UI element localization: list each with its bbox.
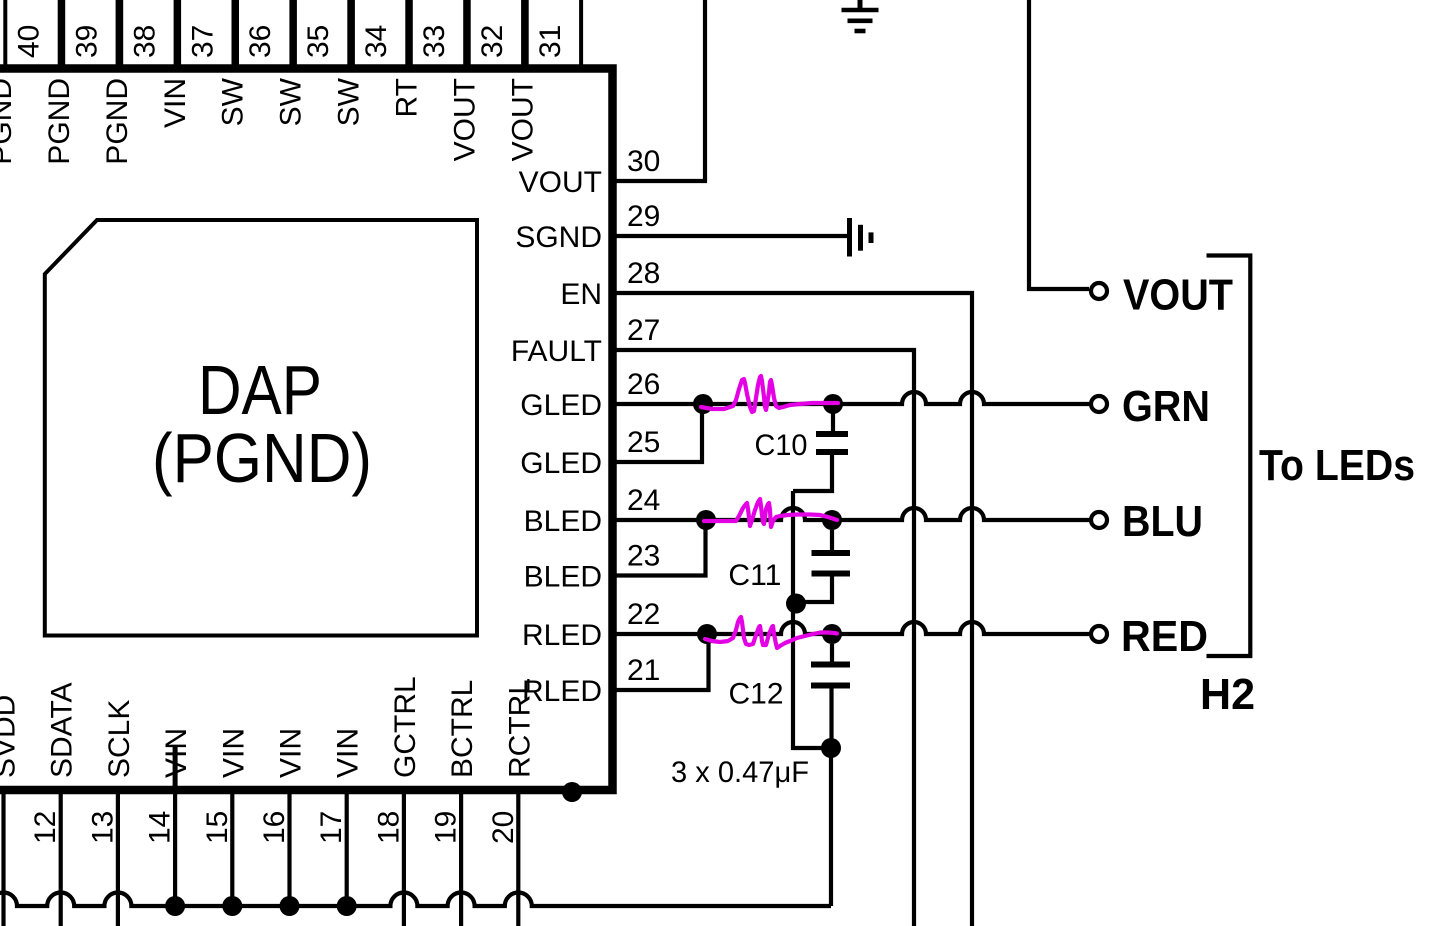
wire pin 21 RLED joining pin 22 (616, 640, 709, 690)
pin number 40 (13, 25, 46, 58)
ferrite bead squiggle on GLED line (701, 376, 838, 412)
wire pin 23 BLED joining pin 24 (616, 526, 706, 576)
svg-text:RT: RT (391, 78, 424, 117)
pin number 13 (86, 811, 119, 844)
svg-text:(PGND): (PGND) (152, 419, 372, 497)
bracket for To LEDs group (1207, 256, 1251, 657)
pin wire, pin 17 (VIN) bottom side (345, 790, 349, 906)
pin label BLED (pin 24) (524, 505, 602, 538)
svg-text:SW: SW (217, 77, 250, 126)
capacitor C10 bottom lead to return line (793, 455, 832, 491)
pin number 33 (418, 25, 451, 58)
net label BLU (1122, 497, 1203, 546)
svg-text:14: 14 (144, 811, 177, 844)
svg-text:H2: H2 (1200, 670, 1255, 719)
terminal RED (header H2 pin) (1091, 626, 1107, 642)
svg-text:SCLK: SCLK (103, 700, 136, 778)
designator H2 (1200, 670, 1255, 719)
svg-text:31: 31 (534, 25, 567, 58)
svg-text:37: 37 (186, 25, 219, 58)
pin label RLED (pin 22) (522, 619, 602, 652)
svg-text:33: 33 (418, 25, 451, 58)
ground symbol (top, earth ground) (842, 0, 879, 31)
svg-text:12: 12 (29, 811, 62, 844)
svg-text:VOUT: VOUT (519, 166, 602, 199)
junction BLED left (696, 510, 716, 530)
capacitor C11 bottom lead to return line (796, 577, 832, 603)
pin number 21 (627, 654, 660, 687)
value label 3 x 0.47uF (671, 756, 809, 789)
pin label BLED (pin 23) (524, 561, 602, 594)
ferrite bead squiggle on RLED line (705, 617, 837, 648)
svg-text:34: 34 (360, 25, 393, 58)
pin label VOUT (pin 31) (506, 78, 539, 161)
junction BLED/C11 (822, 510, 842, 530)
junction VIN pin 17 to bus (337, 896, 357, 916)
junction GLED left (693, 394, 713, 414)
VIN pin 14 stub extending inside IC (173, 747, 178, 790)
net label RED (1121, 612, 1208, 661)
svg-text:VIN: VIN (275, 728, 308, 778)
svg-text:RLED: RLED (522, 675, 602, 708)
junction C12/common node (821, 738, 841, 758)
svg-text:SDATA: SDATA (46, 682, 79, 778)
capacitor C10 plates (816, 434, 848, 452)
svg-text:35: 35 (302, 25, 335, 58)
pin label GLED (pin 25) (520, 447, 602, 480)
pin number 32 (476, 25, 509, 58)
pin label VIN (pin 37) (159, 78, 192, 128)
pin wire, pin 12 (SDATA) bottom side (59, 790, 63, 926)
wire common node down to bottom bus (829, 748, 833, 906)
svg-text:BLED: BLED (524, 561, 602, 594)
value label C11 (728, 559, 781, 592)
pin label PGND (pin 38) (101, 78, 134, 165)
pin number 38 (128, 25, 161, 58)
pin label SCLK (pin 13) (103, 700, 136, 778)
svg-text:22: 22 (627, 598, 660, 631)
svg-text:40: 40 (13, 25, 46, 58)
pin number 24 (627, 484, 660, 517)
pin label VIN (pin 14) (160, 728, 193, 778)
svg-text:C11: C11 (728, 559, 781, 592)
pin label BCTRL (pin 19) (446, 680, 479, 778)
pin number 19 (430, 811, 463, 844)
pin number 28 (627, 257, 660, 290)
svg-text:C10: C10 (755, 429, 808, 462)
pin label SW (pin 35) (275, 77, 308, 126)
svg-text:39: 39 (70, 25, 103, 58)
junction C11 return (786, 594, 806, 614)
svg-text:SW: SW (275, 77, 308, 126)
pin wire, pin 18 (GCTRL) bottom side (402, 790, 406, 926)
pin label RCTRL (pin 20) (503, 678, 536, 778)
pin number 23 (627, 540, 660, 573)
pin box, pin 31 (VOUT) top side (527, 0, 581, 68)
pin number 39 (70, 25, 103, 58)
wire RLED net (pin 22) to RED terminal, hops over capacitor return, FAULT and EN wires (616, 622, 1089, 634)
DAP (PGND) exposed pad box (45, 220, 477, 636)
svg-text:SVDD: SVDD (0, 695, 22, 778)
pin label PGND (pin 40) (0, 78, 18, 165)
pin number 36 (244, 25, 277, 58)
pin number 22 (627, 598, 660, 631)
pin box, pin 40 (PGND) top side (5, 0, 59, 68)
svg-text:VOUT: VOUT (1123, 271, 1233, 320)
net label GRN (1122, 382, 1210, 431)
pin box, pin 33 (RT) top side (411, 0, 465, 68)
junction GLED/C10 (823, 394, 843, 414)
svg-text:PGND: PGND (43, 78, 76, 165)
svg-text:17: 17 (315, 811, 348, 844)
wire pin 28 EN down off-image (616, 293, 972, 926)
pin wire, pin 14 (VIN) bottom side (173, 790, 177, 906)
capacitor C11 top stub (830, 530, 834, 550)
pin number 29 (627, 200, 660, 233)
pin number 34 (360, 25, 393, 58)
svg-text:RLED: RLED (522, 619, 602, 652)
wire pin 25 GLED joining pin 26 (616, 410, 702, 462)
pin label GLED (pin 26) (520, 389, 602, 422)
IC U1 body outline (top edge, right edge, bottom edge) (0, 69, 613, 791)
pin wire, pin 13 (SCLK) bottom side (116, 790, 120, 926)
pin label VIN (pin 16) (275, 728, 308, 778)
svg-text:13: 13 (86, 811, 119, 844)
wire pin 30 VOUT stub going up off-image (616, 0, 705, 181)
svg-text:36: 36 (244, 25, 277, 58)
svg-text:VIN: VIN (159, 78, 192, 128)
junction VIN pin 15 to bus (222, 896, 242, 916)
svg-text:PGND: PGND (101, 78, 134, 165)
pin number 16 (258, 811, 291, 844)
terminal GRN (header H2 pin) (1091, 396, 1107, 412)
pin number 25 (627, 426, 660, 459)
junction VIN pin 16 to bus (280, 896, 300, 916)
svg-text:FAULT: FAULT (511, 335, 602, 368)
svg-text:27: 27 (627, 314, 660, 347)
pin number 27 (627, 314, 660, 347)
pin number 15 (201, 811, 234, 844)
svg-text:18: 18 (372, 811, 405, 844)
svg-text:GRN: GRN (1122, 382, 1210, 431)
pin number 17 (315, 811, 348, 844)
svg-text:29: 29 (627, 200, 660, 233)
pin label EN (pin 28) (560, 278, 602, 311)
value label C10 (755, 429, 808, 462)
pin number 20 (487, 811, 520, 844)
pin label SGND (pin 29) (515, 221, 602, 254)
svg-text:VIN: VIN (332, 728, 365, 778)
pin label VIN (pin 17) (332, 728, 365, 778)
junction RLED/C12 (822, 624, 842, 644)
svg-text:C12: C12 (729, 678, 784, 711)
pin box, pin 37 (VIN) top side (179, 0, 233, 68)
svg-text:To LEDs: To LEDs (1259, 441, 1415, 490)
svg-text:25: 25 (627, 426, 660, 459)
svg-text:EN: EN (560, 278, 602, 311)
svg-text:VIN: VIN (160, 728, 193, 778)
pin wire, pin 16 (VIN) bottom side (287, 790, 291, 906)
svg-text:21: 21 (627, 654, 660, 687)
wire BLED net (pin 24) to BLU terminal, hops over C10 return, FAULT and EN wires (616, 508, 1089, 520)
ground symbol (SGND, rotated right) (850, 218, 872, 257)
pin label FAULT (pin 27) (511, 335, 602, 368)
svg-text:DAP: DAP (198, 351, 322, 429)
svg-text:15: 15 (201, 811, 234, 844)
svg-text:20: 20 (487, 811, 520, 844)
junction on IC bottom edge (562, 782, 582, 802)
pin box, pin 32 (VOUT) top side (469, 0, 523, 68)
pin label VOUT (pin 32) (448, 78, 481, 161)
svg-text:32: 32 (476, 25, 509, 58)
svg-text:24: 24 (627, 484, 660, 517)
capacitor C12 plates (811, 665, 850, 686)
wire pin 27 FAULT down off-image (616, 350, 914, 926)
pin label SW (pin 34) (333, 77, 366, 126)
junction RLED left (697, 624, 717, 644)
svg-text:28: 28 (627, 257, 660, 290)
svg-text:PGND: PGND (0, 78, 18, 165)
pin number 30 (627, 145, 660, 178)
pin label SW (pin 36) (217, 77, 250, 126)
svg-text:SW: SW (333, 77, 366, 126)
terminal BLU (header H2 pin) (1091, 512, 1107, 528)
pin label VIN (pin 15) (217, 728, 250, 778)
svg-text:BCTRL: BCTRL (446, 680, 479, 778)
svg-text:BLED: BLED (524, 505, 602, 538)
wire pin 29 SGND to ground (616, 234, 847, 238)
svg-text:VIN: VIN (217, 728, 250, 778)
svg-text:GLED: GLED (520, 447, 602, 480)
svg-text:16: 16 (258, 811, 291, 844)
pin wire, pin 15 (VIN) bottom side (230, 790, 234, 906)
pin box, pin 38 (PGND) top side (121, 0, 175, 68)
svg-text:38: 38 (128, 25, 161, 58)
svg-text:GCTRL: GCTRL (389, 676, 422, 778)
capacitor C11 plates (812, 553, 851, 574)
pin box, pin 39 (PGND) top side (63, 0, 117, 68)
label DAP (198, 351, 322, 429)
svg-text:30: 30 (627, 145, 660, 178)
pin wire, pin 11 (SVDD) bottom side (1, 790, 5, 926)
svg-text:26: 26 (627, 368, 660, 401)
net label VOUT (1123, 271, 1233, 320)
pin number 31 (534, 25, 567, 58)
pin wire, pin 20 (RCTRL) bottom side (516, 790, 520, 926)
wire capacitor common return (vertical) (793, 491, 831, 748)
junction VIN pin 14 to bus (165, 896, 185, 916)
pin label PGND (pin 39) (43, 78, 76, 165)
svg-text:SGND: SGND (515, 221, 602, 254)
pin box, pin 36 (SW) top side (237, 0, 291, 68)
svg-text:GLED: GLED (520, 389, 602, 422)
capacitor C10 top stub (831, 404, 835, 431)
pin number 26 (627, 368, 660, 401)
capacitor C12 top stub (830, 644, 834, 662)
pin number 37 (186, 25, 219, 58)
ferrite bead squiggle on BLED line (704, 499, 837, 527)
terminal VOUT (header H2 pin) (1091, 283, 1107, 299)
svg-text:BLU: BLU (1122, 497, 1203, 546)
svg-text:RED: RED (1121, 612, 1208, 661)
label To LEDs (1259, 441, 1415, 490)
pin number 14 (144, 811, 177, 844)
pin label VOUT (pin 30) (519, 166, 602, 199)
label (PGND) (152, 419, 372, 497)
wire VOUT from top off-image to VOUT terminal (1029, 0, 1089, 289)
value label C12 (729, 678, 784, 711)
pin label SDATA (pin 12) (46, 682, 79, 778)
wire VIN bottom bus with hops over pins 11,12,13,18,19,20 (0, 893, 831, 906)
pin box, pin 35 (SW) top side (295, 0, 349, 68)
capacitor C12 bottom lead to common node (829, 689, 833, 749)
svg-text:3 x 0.47μF: 3 x 0.47μF (671, 756, 809, 789)
pin label RT (pin 33) (391, 78, 424, 117)
pin number 18 (372, 811, 405, 844)
svg-text:19: 19 (430, 811, 463, 844)
pin label GCTRL (pin 18) (389, 676, 422, 778)
pin wire, pin 19 (BCTRL) bottom side (459, 790, 463, 926)
pin box, pin 34 (SW) top side (353, 0, 407, 68)
pin label SVDD (pin 11) (0, 695, 22, 778)
wire GLED net (pin 26) to GRN terminal, hops over FAULT and EN wires (616, 392, 1089, 404)
pin number 12 (29, 811, 62, 844)
pin label RLED (pin 21) (522, 675, 602, 708)
svg-text:VOUT: VOUT (506, 78, 539, 161)
svg-text:23: 23 (627, 540, 660, 573)
svg-text:VOUT: VOUT (448, 78, 481, 161)
pin number 35 (302, 25, 335, 58)
